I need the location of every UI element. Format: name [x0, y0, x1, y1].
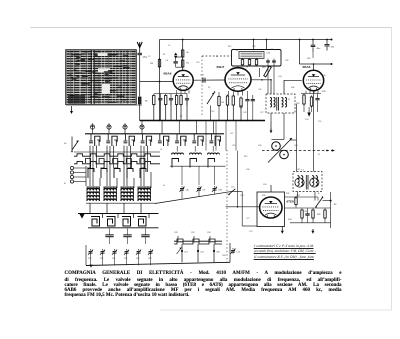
V2 cathode components [228, 91, 230, 96]
svg-text:C74: C74 [236, 252, 239, 254]
svg-text:C31: C31 [270, 49, 273, 51]
oscillator coil block [87, 187, 99, 202]
tuning gang variable capacitors [272, 142, 281, 151]
vertical feeds into T1 [296, 104, 298, 172]
tube V3 6BA6 [303, 70, 323, 90]
svg-text:R18: R18 [262, 67, 265, 69]
svg-text:C14: C14 [196, 62, 199, 64]
switch S2 [210, 106, 212, 121]
ground on bottom bus [89, 265, 92, 268]
padder capacitors row [90, 125, 94, 129]
svg-text:C70: C70 [200, 252, 203, 254]
svg-text:I.M.: I.M. [297, 169, 301, 171]
inner label box [239, 52, 264, 59]
tube V4 6TE8 with shield box [257, 192, 285, 227]
grid wire antenna to V1 [140, 81, 174, 83]
svg-text:C44: C44 [278, 76, 281, 78]
svg-text:C7B: C7B [218, 190, 222, 192]
capacitor row below bank2 [105, 234, 113, 236]
FM oscillator box [232, 50, 282, 67]
svg-text:S2: S2 [208, 87, 210, 89]
trimmers mid right [181, 166, 183, 185]
svg-text:L8: L8 [216, 56, 218, 58]
hooks below coils [172, 159, 179, 168]
feed verticals from bus down [205, 121, 207, 151]
caption [65, 272, 342, 277]
svg-text:4k: 4k [186, 52, 189, 54]
stems from right units up to bus [161, 121, 163, 134]
svg-text:17A: 17A [143, 56, 148, 59]
svg-text:C64: C64 [294, 145, 297, 147]
crossing verticals bank1 [89, 146, 91, 187]
bank1 row 2: crenellated lines + hooks [74, 154, 160, 156]
svg-text:C7a: C7a [231, 187, 235, 189]
svg-text:C60: C60 [258, 145, 261, 147]
svg-text:R44: R44 [288, 219, 291, 221]
grid wire to V4 [226, 206, 260, 208]
page frame (scan edge) [30, 27, 392, 29]
B+ top rail [160, 39, 332, 41]
V3 cathode components [305, 91, 307, 94]
svg-text:C26: C26 [243, 112, 246, 114]
svg-text:C52: C52 [124, 258, 127, 260]
svg-text:B: B [64, 183, 66, 185]
svg-text:C2: C2 [148, 56, 150, 58]
wave-change switch lever [71, 137, 73, 153]
dashed section divider [226, 150, 228, 265]
svg-text:C42: C42 [258, 89, 261, 91]
svg-text:R15: R15 [244, 156, 247, 158]
svg-text:L9: L9 [288, 99, 290, 101]
svg-text:C15: C15 [211, 111, 214, 113]
svg-text:R12: R12 [228, 46, 231, 48]
svg-text:C40: C40 [322, 75, 325, 77]
svg-text:C50: C50 [305, 119, 308, 121]
svg-text:R1: R1 [163, 54, 165, 56]
trimmer row bottom [89, 251, 93, 253]
output switch [316, 198, 323, 207]
svg-text:C66: C66 [246, 169, 249, 171]
svg-text:C63: C63 [136, 258, 139, 260]
input terminal circles [70, 166, 73, 169]
svg-text:R33: R33 [296, 103, 299, 105]
V1 cathode components [153, 96, 155, 105]
svg-text:C17: C17 [200, 75, 205, 77]
svg-text:6BA6: 6BA6 [164, 72, 172, 76]
svg-text:C30: C30 [267, 53, 270, 55]
RF coils right [172, 153, 184, 155]
svg-text:R38: R38 [322, 91, 325, 93]
ground below table [71, 106, 73, 109]
svg-text:R9: R9 [221, 102, 224, 104]
svg-text:C80: C80 [222, 255, 225, 257]
switch bank 1 row 3 hooks [88, 169, 94, 179]
parts/voltage table [66, 50, 142, 105]
svg-text:M: M [318, 154, 320, 156]
diagonal AVC bus [155, 191, 233, 203]
svg-text:C27: C27 [260, 112, 263, 114]
rail drop left with resistor [159, 40, 161, 121]
switch bank 2: bus + spiral units [78, 213, 159, 215]
trimmer right of divider [231, 250, 235, 252]
switch C7a [229, 189, 235, 194]
rail end terminal [331, 39, 333, 41]
svg-text:C90: C90 [216, 252, 219, 254]
svg-text:L12: L12 [230, 133, 233, 135]
svg-text:AP: AP [334, 203, 337, 206]
wire V2 plate to FM IF [251, 79, 271, 81]
antenna [137, 42, 142, 48]
bank3 double crenellated lines [174, 239, 222, 241]
bottom ground bus [86, 262, 230, 265]
tube V2 6SH7 [225, 68, 251, 92]
gang dashed linkage [262, 150, 333, 152]
svg-text:6BA6: 6BA6 [303, 65, 311, 69]
decoupling cap x313 [312, 40, 314, 45]
svg-text:C77: C77 [246, 218, 249, 220]
V3 top feed [299, 40, 301, 65]
svg-text:C9: C9 [203, 190, 205, 192]
bank3 drops with dots [181, 244, 183, 262]
FM ratio detector transformer (dashed box) [266, 94, 295, 113]
svg-text:C18: C18 [148, 258, 151, 260]
V1 plate branch: resistors above tube [182, 40, 184, 71]
svg-text:C30: C30 [207, 232, 210, 234]
svg-text:C19: C19 [232, 145, 235, 147]
switch bank 1 row 1: continuous bus + units [85, 133, 224, 135]
tube V1 6BA6 [173, 70, 193, 90]
svg-text:C5: C5 [165, 60, 169, 62]
svg-text:C7b: C7b [263, 184, 266, 186]
svg-text:C28: C28 [174, 232, 177, 234]
arrow terminal below bus [270, 121, 272, 132]
svg-text:A: A [318, 192, 320, 195]
svg-text:C73: C73 [240, 195, 243, 197]
svg-text:S1: S1 [64, 143, 67, 145]
wire FM IF to V3 grid [283, 80, 285, 94]
svg-text:C23: C23 [88, 258, 91, 260]
svg-text:L4: L4 [236, 50, 238, 52]
wire antenna down to bus [139, 55, 141, 97]
antenna series capacitor [137, 52, 142, 54]
dashed FM section boundary [201, 56, 203, 116]
AM IF transformer T1 [293, 172, 322, 192]
svg-text:R49: R49 [317, 214, 320, 216]
svg-text:C61: C61 [184, 252, 187, 254]
decoupling cap top right [326, 40, 328, 45]
svg-text:R40: R40 [262, 195, 265, 197]
svg-text:R7: R7 [180, 116, 182, 118]
coupling cap C17 [193, 79, 225, 81]
svg-text:6SH7: 6SH7 [217, 65, 225, 69]
svg-text:C28: C28 [252, 46, 255, 48]
resistor in antenna lead [138, 97, 141, 104]
V4 top feed [270, 185, 272, 192]
V4 plate circuit right [285, 196, 319, 198]
svg-text:C8a: C8a [186, 190, 190, 192]
svg-text:R42: R42 [286, 193, 289, 195]
vertical feeds [237, 151, 239, 207]
svg-text:C1: C1 [168, 45, 170, 47]
svg-text:R26: R26 [307, 58, 310, 60]
svg-text:6TE8: 6TE8 [287, 200, 295, 204]
diagonal resistor right of V2 [264, 66, 272, 77]
bypass cap left of plate resistor [175, 57, 177, 61]
handwritten annotation [254, 244, 341, 248]
svg-text:C41: C41 [112, 258, 115, 260]
svg-text:4Na: 4Na [317, 48, 322, 50]
svg-text:49a: 49a [331, 47, 335, 49]
svg-text:C52: C52 [318, 121, 321, 123]
svg-text:R6: R6 [145, 101, 149, 103]
svg-text:R30: R30 [291, 87, 294, 89]
svg-text:C32: C32 [100, 258, 103, 260]
svg-text:1M: 1M [150, 63, 153, 65]
bank3 left trimmer arrow [177, 248, 182, 255]
grounds bottom right [281, 227, 283, 230]
svg-text:Ra: Ra [186, 63, 190, 65]
arrow below V3 components [307, 113, 311, 117]
svg-text:C36: C36 [285, 60, 288, 62]
svg-text:C85: C85 [304, 211, 307, 213]
svg-text:C29: C29 [191, 232, 194, 234]
svg-text:R51: R51 [297, 195, 300, 197]
main ground bus [140, 120, 266, 122]
svg-text:C75: C75 [249, 231, 252, 233]
svg-text:L3: L3 [163, 185, 165, 187]
svg-text:L2: L2 [160, 149, 162, 151]
stubs below T1 [297, 192, 299, 198]
